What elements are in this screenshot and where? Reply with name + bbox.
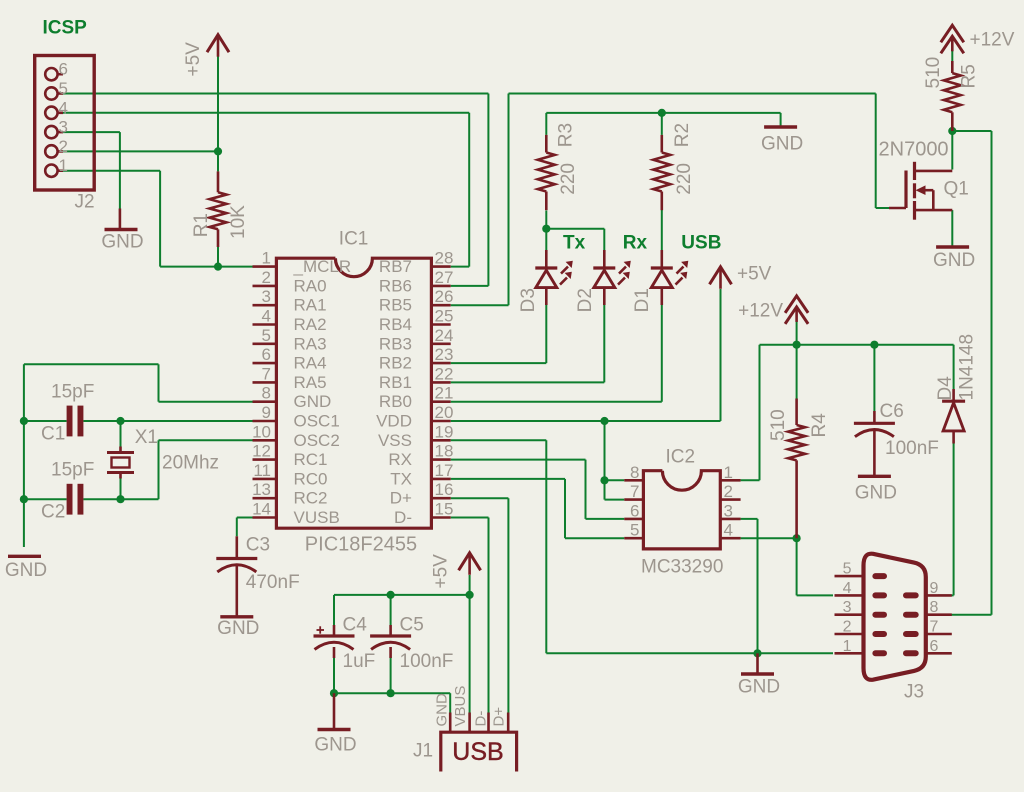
svg-text:3: 3 — [843, 599, 852, 616]
svg-text:6: 6 — [630, 501, 639, 520]
svg-text:510: 510 — [768, 409, 789, 441]
svg-text:2: 2 — [724, 482, 733, 501]
svg-text:C3: C3 — [246, 535, 270, 556]
svg-text:Rx: Rx — [623, 233, 648, 254]
svg-text:RC1: RC1 — [294, 450, 328, 469]
svg-text:510: 510 — [923, 57, 944, 89]
svg-text:C5: C5 — [400, 615, 424, 636]
svg-text:Q1: Q1 — [944, 179, 969, 200]
svg-text:1uF: 1uF — [343, 651, 376, 672]
svg-text:16: 16 — [435, 480, 454, 499]
svg-text:28: 28 — [435, 249, 454, 268]
svg-text:D+: D+ — [390, 489, 412, 508]
svg-text:20: 20 — [435, 403, 454, 422]
svg-text:2: 2 — [843, 619, 852, 636]
svg-text:1: 1 — [262, 249, 271, 268]
svg-text:PIC18F2455: PIC18F2455 — [305, 534, 417, 556]
svg-text:1: 1 — [59, 156, 68, 175]
svg-text:VBUS: VBUS — [452, 686, 469, 727]
svg-text:10: 10 — [252, 422, 271, 441]
svg-text:RA4: RA4 — [294, 354, 327, 373]
svg-text:22: 22 — [435, 364, 454, 383]
svg-text:15pF: 15pF — [51, 460, 94, 481]
svg-text:2: 2 — [59, 137, 68, 156]
svg-text:OSC1: OSC1 — [294, 412, 340, 431]
svg-text:+5V: +5V — [737, 264, 772, 285]
svg-text:GND: GND — [294, 392, 332, 411]
svg-text:7: 7 — [262, 364, 271, 383]
svg-text:VDD: VDD — [376, 412, 412, 431]
svg-text:C1: C1 — [41, 424, 65, 445]
svg-text:GND: GND — [434, 693, 451, 727]
svg-text:2N7000: 2N7000 — [879, 139, 949, 161]
svg-text:RB3: RB3 — [379, 334, 412, 353]
svg-text:C2: C2 — [41, 502, 65, 523]
svg-text:5: 5 — [59, 79, 68, 98]
svg-text:R4: R4 — [809, 413, 830, 438]
svg-text:RC0: RC0 — [294, 469, 328, 488]
svg-text:ICSP: ICSP — [43, 18, 88, 39]
svg-text:USB: USB — [681, 233, 721, 254]
svg-text:R1: R1 — [191, 213, 212, 237]
svg-text:RX: RX — [388, 450, 412, 469]
svg-text:J2: J2 — [75, 192, 95, 213]
svg-text:RB2: RB2 — [379, 354, 412, 373]
svg-text:RA1: RA1 — [294, 296, 327, 315]
svg-text:220: 220 — [558, 163, 579, 195]
svg-text:RC2: RC2 — [294, 489, 328, 508]
svg-text:GND: GND — [101, 232, 143, 253]
svg-text:RB7: RB7 — [379, 257, 412, 276]
svg-text:D-: D- — [394, 508, 412, 527]
svg-text:RA3: RA3 — [294, 334, 327, 353]
svg-text:J1: J1 — [413, 741, 433, 762]
svg-text:5: 5 — [843, 561, 852, 578]
svg-text:1N4148: 1N4148 — [956, 334, 977, 401]
svg-text:GND: GND — [761, 134, 803, 155]
svg-text:5: 5 — [630, 521, 639, 540]
svg-text:23: 23 — [435, 345, 454, 364]
svg-text:25: 25 — [435, 307, 454, 326]
svg-text:220: 220 — [674, 163, 695, 195]
svg-text:GND: GND — [314, 735, 356, 756]
svg-text:10K: 10K — [228, 205, 249, 239]
svg-text:3: 3 — [262, 287, 271, 306]
svg-text:26: 26 — [435, 287, 454, 306]
svg-text:VSS: VSS — [378, 431, 412, 450]
svg-text:R3: R3 — [555, 123, 576, 147]
svg-text:+5V: +5V — [431, 554, 452, 589]
svg-text:VUSB: VUSB — [294, 508, 340, 527]
svg-text:8: 8 — [630, 463, 639, 482]
svg-text:2: 2 — [262, 268, 271, 287]
svg-text:6: 6 — [262, 345, 271, 364]
svg-text:4: 4 — [724, 521, 733, 540]
svg-text:GND: GND — [5, 560, 47, 581]
svg-text:_MCLR: _MCLR — [293, 257, 352, 276]
svg-text:100nF: 100nF — [400, 651, 454, 672]
svg-text:6: 6 — [59, 60, 68, 79]
svg-text:15: 15 — [435, 500, 454, 519]
svg-text:J3: J3 — [904, 682, 924, 703]
svg-text:4: 4 — [59, 98, 68, 117]
svg-text:+12V: +12V — [970, 30, 1015, 51]
svg-text:RA0: RA0 — [294, 276, 327, 295]
svg-text:RB6: RB6 — [379, 276, 412, 295]
svg-text:3: 3 — [724, 501, 733, 520]
svg-text:D3: D3 — [518, 288, 539, 312]
svg-text:1: 1 — [724, 463, 733, 482]
svg-text:OSC2: OSC2 — [294, 431, 340, 450]
svg-text:8: 8 — [930, 599, 939, 616]
svg-text:R2: R2 — [672, 123, 693, 147]
svg-text:GND: GND — [738, 677, 780, 698]
svg-text:C6: C6 — [880, 401, 904, 422]
svg-text:GND: GND — [933, 250, 975, 271]
svg-text:D2: D2 — [575, 288, 596, 312]
svg-text:5: 5 — [262, 326, 271, 345]
svg-text:D1: D1 — [632, 288, 653, 312]
svg-text:11: 11 — [253, 461, 271, 480]
svg-text:8: 8 — [262, 384, 271, 403]
svg-text:15pF: 15pF — [51, 382, 94, 403]
svg-text:C4: C4 — [343, 615, 368, 636]
svg-text:Tx: Tx — [563, 233, 586, 254]
svg-text:D+: D+ — [491, 707, 508, 727]
svg-text:12: 12 — [252, 442, 271, 461]
svg-text:20Mhz: 20Mhz — [162, 453, 219, 474]
svg-text:GND: GND — [217, 618, 259, 639]
svg-text:9: 9 — [930, 580, 939, 597]
svg-text:17: 17 — [435, 461, 454, 480]
svg-text:RB0: RB0 — [379, 392, 412, 411]
svg-text:24: 24 — [435, 326, 454, 345]
svg-text:4: 4 — [262, 307, 271, 326]
svg-text:19: 19 — [435, 422, 454, 441]
svg-text:14: 14 — [252, 500, 271, 519]
svg-text:MC33290: MC33290 — [641, 557, 723, 578]
svg-text:6: 6 — [930, 638, 939, 655]
svg-text:TX: TX — [390, 469, 412, 488]
svg-text:D-: D- — [472, 711, 489, 727]
svg-text:R5: R5 — [959, 64, 980, 88]
svg-text:3: 3 — [59, 118, 68, 137]
svg-text:D4: D4 — [935, 376, 956, 401]
svg-text:100nF: 100nF — [885, 438, 939, 459]
svg-text:RB5: RB5 — [379, 296, 412, 315]
svg-text:+5V: +5V — [183, 42, 204, 77]
svg-text:4: 4 — [843, 580, 852, 597]
svg-text:GND: GND — [855, 483, 897, 504]
svg-text:7: 7 — [930, 619, 939, 636]
svg-text:IC1: IC1 — [339, 229, 369, 250]
svg-text:RB4: RB4 — [379, 315, 412, 334]
svg-text:RA2: RA2 — [294, 315, 327, 334]
svg-text:+12V: +12V — [738, 301, 783, 322]
svg-text:IC2: IC2 — [666, 447, 696, 468]
svg-text:13: 13 — [252, 480, 271, 499]
svg-text:18: 18 — [435, 442, 454, 461]
svg-text:9: 9 — [262, 403, 271, 422]
svg-text:21: 21 — [435, 384, 454, 403]
svg-text:RB1: RB1 — [379, 373, 412, 392]
svg-text:27: 27 — [435, 268, 454, 287]
svg-text:USB: USB — [452, 738, 503, 766]
svg-text:7: 7 — [630, 482, 639, 501]
svg-text:470nF: 470nF — [246, 572, 300, 593]
svg-text:X1: X1 — [135, 427, 158, 448]
svg-text:1: 1 — [843, 638, 852, 655]
svg-text:RA5: RA5 — [294, 373, 327, 392]
